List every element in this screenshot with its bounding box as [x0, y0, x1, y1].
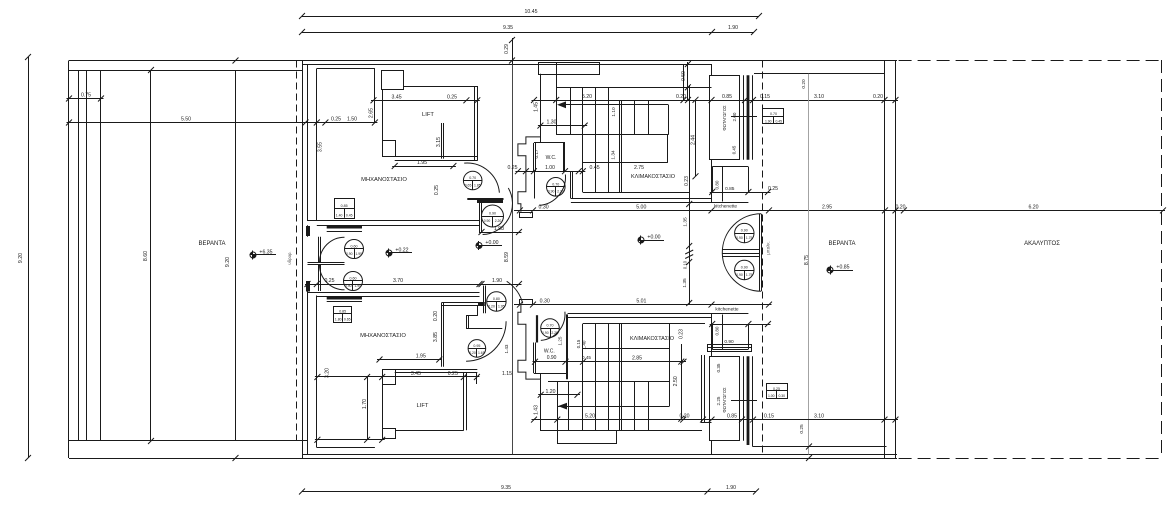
svg-text:0.29: 0.29: [504, 44, 510, 54]
svg-text:0.45: 0.45: [582, 355, 591, 360]
svg-text:W.C.: W.C.: [546, 155, 557, 161]
svg-text:1.95: 1.95: [416, 354, 426, 360]
svg-text:0.23: 0.23: [679, 329, 685, 339]
svg-text:ΒΕΡΑΝΤΑ: ΒΕΡΑΝΤΑ: [198, 241, 225, 247]
svg-text:1.10: 1.10: [611, 107, 617, 117]
svg-text:2.00: 2.00: [732, 112, 737, 121]
svg-text:0.23: 0.23: [684, 176, 690, 186]
svg-text:0.20: 0.20: [488, 304, 495, 308]
svg-text:1.85: 1.85: [474, 183, 481, 187]
svg-text:0.85: 0.85: [727, 414, 737, 420]
svg-text:2.65: 2.65: [369, 108, 375, 118]
svg-text:0.75: 0.75: [81, 93, 91, 99]
svg-text:1.20: 1.20: [545, 389, 555, 395]
svg-text:1.90: 1.90: [726, 485, 736, 491]
svg-text:1.95: 1.95: [355, 252, 362, 256]
svg-text:0.15: 0.15: [760, 94, 770, 100]
svg-text:2.75: 2.75: [634, 165, 644, 171]
svg-text:0.65: 0.65: [465, 183, 472, 187]
svg-text:2.20: 2.20: [551, 331, 558, 335]
svg-text:3.55: 3.55: [318, 142, 324, 152]
svg-text:0.30: 0.30: [540, 299, 550, 305]
svg-text:0.20: 0.20: [676, 94, 686, 100]
svg-text:0.20: 0.20: [433, 311, 439, 321]
svg-text:1.65: 1.65: [478, 351, 485, 355]
svg-text:0.25: 0.25: [507, 165, 517, 171]
svg-text:1.75: 1.75: [746, 236, 753, 240]
svg-text:LIFT: LIFT: [422, 112, 434, 118]
svg-text:6.20: 6.20: [1028, 204, 1038, 210]
svg-text:3.70: 3.70: [393, 278, 403, 284]
svg-text:0.17: 0.17: [534, 149, 539, 158]
svg-text:0.35: 0.35: [716, 363, 721, 372]
svg-text:0.85: 0.85: [339, 310, 346, 314]
svg-text:3.45: 3.45: [411, 371, 421, 377]
svg-text:ΚΛΙΜΑΚΟΣΤΑΣΙΟ: ΚΛΙΜΑΚΟΣΤΑΣΙΟ: [631, 174, 676, 180]
svg-text:0.80: 0.80: [493, 297, 500, 301]
svg-text:0.20: 0.20: [469, 351, 476, 355]
svg-text:0.90: 0.90: [542, 331, 549, 335]
svg-text:2.85: 2.85: [632, 356, 642, 362]
svg-text:+6.35: +6.35: [259, 250, 272, 256]
svg-text:1.15: 1.15: [502, 371, 512, 377]
svg-text:ΜΗΧΑΝΟΣΤΑΣΙΟ: ΜΗΧΑΝΟΣΤΑΣΙΟ: [360, 333, 406, 339]
svg-text:0.25: 0.25: [799, 424, 805, 434]
svg-text:0.90: 0.90: [489, 212, 496, 216]
svg-text:1.34: 1.34: [611, 150, 617, 160]
svg-text:0.15: 0.15: [576, 339, 581, 348]
svg-text:0.90: 0.90: [346, 252, 353, 256]
svg-text:0.60: 0.60: [350, 277, 357, 281]
svg-text:0.90: 0.90: [484, 219, 491, 223]
svg-text:+0.00: +0.00: [647, 235, 660, 241]
svg-text:0.20: 0.20: [873, 94, 883, 100]
svg-text:υδρορ.: υδρορ.: [287, 251, 292, 264]
svg-text:0.90: 0.90: [741, 266, 748, 270]
svg-text:ΦΩΤΑΓΩΓΟΣ: ΦΩΤΑΓΩΓΟΣ: [722, 105, 727, 131]
svg-text:3.85: 3.85: [433, 332, 439, 342]
svg-text:9.20: 9.20: [18, 253, 24, 263]
svg-text:0.70: 0.70: [547, 324, 554, 328]
svg-text:1.90: 1.90: [728, 25, 738, 31]
svg-text:0.70: 0.70: [469, 176, 476, 180]
svg-text:1.25: 1.25: [558, 336, 563, 345]
svg-text:1.35: 1.35: [682, 217, 688, 227]
svg-text:5.00: 5.00: [636, 204, 646, 210]
svg-text:8.60: 8.60: [143, 251, 149, 261]
svg-text:1.43: 1.43: [534, 405, 540, 415]
svg-text:1.00: 1.00: [768, 394, 775, 398]
svg-text:0.85: 0.85: [341, 204, 348, 208]
svg-text:1.98: 1.98: [494, 226, 504, 232]
svg-text:kitchenette: kitchenette: [714, 204, 738, 210]
svg-text:0.90: 0.90: [547, 355, 557, 361]
svg-text:3.45: 3.45: [392, 94, 402, 100]
svg-text:0.59: 0.59: [681, 71, 687, 81]
svg-text:0.80: 0.80: [714, 180, 719, 189]
svg-text:ΑΚΑΛΥΠΤΟΣ: ΑΚΑΛΥΠΤΟΣ: [1024, 241, 1060, 247]
svg-text:+0.22: +0.22: [395, 248, 408, 254]
svg-text:+0.00: +0.00: [485, 240, 498, 246]
svg-text:0.25: 0.25: [447, 94, 457, 100]
svg-text:1.80: 1.80: [335, 317, 342, 321]
svg-text:ΜΗΧΑΝΟΣΤΑΣΙΟ: ΜΗΧΑΝΟΣΤΑΣΙΟ: [361, 177, 407, 183]
svg-text:1.75: 1.75: [746, 273, 753, 277]
svg-text:0.90: 0.90: [548, 190, 555, 194]
svg-text:1.90: 1.90: [492, 278, 502, 284]
svg-text:W.C.: W.C.: [544, 349, 555, 355]
svg-text:0.65: 0.65: [344, 317, 351, 321]
svg-text:0.85: 0.85: [722, 94, 732, 100]
svg-text:0.90: 0.90: [736, 236, 743, 240]
svg-text:2.25: 2.25: [716, 396, 721, 405]
svg-text:1.30: 1.30: [546, 120, 556, 126]
svg-text:9.35: 9.35: [503, 25, 513, 31]
svg-text:1.35: 1.35: [682, 278, 688, 288]
svg-text:10.45: 10.45: [525, 9, 538, 15]
svg-text:5.01: 5.01: [636, 299, 646, 305]
svg-text:3.15: 3.15: [436, 137, 442, 147]
svg-text:0.25: 0.25: [324, 278, 334, 284]
svg-text:2.95: 2.95: [822, 204, 832, 210]
svg-text:3.20: 3.20: [325, 368, 331, 378]
svg-text:0.25: 0.25: [434, 185, 440, 195]
svg-text:0.25: 0.25: [331, 117, 341, 123]
svg-text:0.80: 0.80: [714, 326, 719, 335]
svg-text:ΒΕΡΑΝΤΑ: ΒΕΡΑΝΤΑ: [828, 241, 855, 247]
svg-text:1.95: 1.95: [498, 304, 505, 308]
svg-text:kitchenette: kitchenette: [715, 307, 739, 313]
svg-text:8.59: 8.59: [504, 252, 510, 262]
svg-text:0.10: 0.10: [682, 260, 687, 269]
svg-text:+0.85: +0.85: [836, 265, 849, 271]
svg-text:0.45: 0.45: [732, 145, 737, 154]
svg-text:0.45: 0.45: [346, 213, 353, 217]
svg-text:0.95: 0.95: [473, 344, 480, 348]
svg-text:0.45: 0.45: [590, 165, 600, 171]
svg-text:2.44: 2.44: [691, 135, 697, 145]
svg-text:0.30: 0.30: [539, 204, 549, 210]
svg-text:1.40: 1.40: [336, 213, 343, 217]
svg-text:5.20: 5.20: [582, 94, 592, 100]
svg-text:3.10: 3.10: [814, 414, 824, 420]
svg-text:1.50: 1.50: [347, 117, 357, 123]
svg-text:9.20: 9.20: [225, 257, 231, 267]
svg-text:0.25: 0.25: [768, 186, 778, 192]
svg-text:0.20: 0.20: [895, 204, 905, 210]
svg-text:0.25: 0.25: [773, 387, 780, 391]
svg-text:1.43: 1.43: [504, 344, 509, 353]
svg-text:5.50: 5.50: [181, 117, 191, 123]
svg-text:LIFT: LIFT: [417, 403, 429, 409]
svg-text:0.70: 0.70: [770, 112, 777, 116]
svg-text:0.20: 0.20: [801, 79, 807, 89]
svg-text:3.10: 3.10: [814, 94, 824, 100]
svg-text:2.50: 2.50: [673, 376, 679, 386]
svg-text:μπαλκ.: μπαλκ.: [766, 241, 771, 254]
svg-text:0.90: 0.90: [736, 273, 743, 277]
svg-text:1.95: 1.95: [417, 160, 427, 166]
svg-text:9.35: 9.35: [501, 485, 511, 491]
svg-text:0.15: 0.15: [764, 414, 774, 420]
svg-text:0.30: 0.30: [778, 394, 785, 398]
svg-text:1.90: 1.90: [765, 119, 772, 123]
svg-text:8.75: 8.75: [804, 255, 810, 265]
svg-text:0.70: 0.70: [552, 182, 559, 186]
svg-text:1.45: 1.45: [534, 102, 540, 112]
svg-text:0.85: 0.85: [725, 186, 735, 192]
svg-text:ΦΩΤΑΓΩΓΟΣ: ΦΩΤΑΓΩΓΟΣ: [722, 387, 727, 413]
svg-text:0.25: 0.25: [448, 371, 458, 377]
svg-text:0.90: 0.90: [741, 229, 748, 233]
svg-text:1.70: 1.70: [362, 399, 368, 409]
svg-text:5.20: 5.20: [585, 414, 595, 420]
svg-text:2.20: 2.20: [557, 190, 564, 194]
svg-text:0.45: 0.45: [775, 119, 782, 123]
svg-text:0.60: 0.60: [351, 245, 358, 249]
svg-text:ΚΛΙΜΑΚΟΣΤΑΣΙΟ: ΚΛΙΜΑΚΟΣΤΑΣΙΟ: [630, 336, 675, 342]
svg-text:1.00: 1.00: [545, 165, 555, 171]
svg-text:2.20: 2.20: [495, 219, 502, 223]
